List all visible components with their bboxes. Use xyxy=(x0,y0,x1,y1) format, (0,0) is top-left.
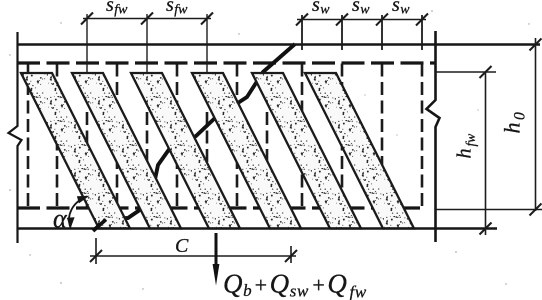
diagonal crack xyxy=(93,44,295,231)
h_0 top tick xyxy=(530,39,542,51)
h_fw bottom tick xyxy=(480,223,492,235)
stirrup S6 xyxy=(176,64,179,208)
beam right edge with break xyxy=(427,31,440,242)
s_w tick 4 xyxy=(416,14,428,26)
s_w dimension line xyxy=(297,19,426,21)
s_w tick 2 xyxy=(336,14,348,26)
C extension line right xyxy=(290,246,292,263)
C extension line left xyxy=(95,238,97,264)
s_fw tick 3 xyxy=(201,13,213,25)
h_fw dimension line xyxy=(485,72,487,235)
stirrup S11 xyxy=(341,64,344,208)
alpha arc top arrowhead xyxy=(77,196,90,204)
s_w extension line 3 xyxy=(381,15,383,50)
bent bar B6 xyxy=(305,73,414,229)
stirrup S4 xyxy=(116,64,119,208)
stirrup S3 xyxy=(86,112,89,208)
svg-text:sw: sw xyxy=(352,0,370,18)
alpha arc bottom arrowhead xyxy=(67,217,75,228)
s_fw extension line 3 xyxy=(206,14,208,73)
s_fw extension line 1 xyxy=(86,14,88,73)
s_w tick 3 xyxy=(376,14,388,26)
crack overlay at band1 corner xyxy=(94,220,106,231)
s_w tick 1 xyxy=(296,14,308,26)
bottom rebar dashed line xyxy=(17,206,420,209)
force arrow Q xyxy=(215,233,218,269)
svg-text:C: C xyxy=(175,235,189,257)
stirrup S8 xyxy=(236,64,239,208)
bent bar B4 xyxy=(192,73,301,229)
h_fw top tick xyxy=(480,66,492,78)
bent bar B3 xyxy=(131,73,240,229)
angle alpha arc xyxy=(69,197,87,228)
beam top line xyxy=(17,43,540,46)
s_fw extension line 2 xyxy=(146,14,148,73)
h_0 bottom tick xyxy=(530,204,542,216)
stirrup S9 xyxy=(266,112,269,208)
bent bar B2 xyxy=(72,73,181,229)
top rebar dashed line xyxy=(17,61,435,64)
s_w extension line 1 xyxy=(301,15,303,50)
stirrup S10 xyxy=(301,64,304,208)
C dimension line xyxy=(90,255,296,257)
svg-text:sfw: sfw xyxy=(166,0,188,18)
svg-text:sfw: sfw xyxy=(106,0,128,18)
beam left edge with break xyxy=(9,32,22,243)
h_0 dimension line xyxy=(535,38,537,211)
svg-text:sw: sw xyxy=(392,0,410,18)
stirrup S1 xyxy=(27,64,30,208)
h_fw top extension line xyxy=(436,71,496,73)
stirrup S7 xyxy=(206,112,209,208)
s_w extension line 4 xyxy=(421,15,423,50)
C left tick xyxy=(90,250,102,262)
svg-text:sw: sw xyxy=(312,0,330,18)
stirrup S5 xyxy=(146,112,149,208)
bent bar B1 xyxy=(21,73,130,229)
bottom rebar extension line xyxy=(436,209,542,211)
s_fw tick 2 xyxy=(141,13,153,25)
bent bar B5 xyxy=(252,73,361,229)
stirrup S12 xyxy=(381,64,384,208)
beam bottom line xyxy=(17,227,497,230)
svg-text:α: α xyxy=(53,204,68,233)
s_fw dimension line xyxy=(83,18,211,20)
s_fw tick 1 xyxy=(81,13,93,25)
s_w extension line 2 xyxy=(341,15,343,50)
C right tick xyxy=(285,250,297,262)
stirrup S13 xyxy=(421,64,424,208)
stirrup S2 xyxy=(56,64,59,208)
